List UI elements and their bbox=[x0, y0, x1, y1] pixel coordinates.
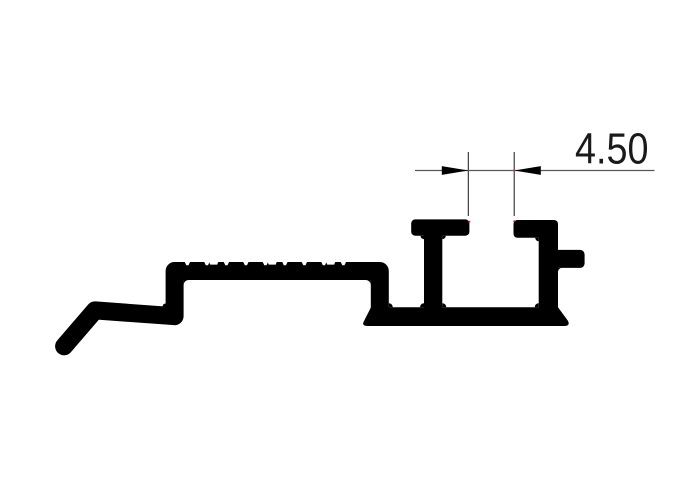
fillet tab bottom-left bbox=[558, 268, 562, 272]
profile base bar (flared ends) bbox=[363, 307, 569, 326]
right channel stem bbox=[539, 230, 558, 312]
right channel top bar bbox=[514, 220, 559, 238]
right side tab bbox=[552, 250, 585, 268]
svg-text:4.50: 4.50 bbox=[575, 126, 649, 174]
profile left section: hook, sloped web, left wall, serrated plateau, right wall (single stroke) bbox=[64, 271, 380, 346]
dimension extension line right bbox=[513, 152, 515, 216]
fillets at stem junctions bbox=[163, 236, 539, 309]
dimension arrow right bbox=[514, 166, 541, 175]
T upright top bar bbox=[411, 219, 469, 235]
T upright stem bbox=[424, 230, 442, 312]
defpoint marker right bbox=[513, 220, 515, 222]
dimension arrow left bbox=[442, 166, 469, 175]
dimension extension line left bbox=[467, 152, 469, 216]
dimension line bbox=[415, 170, 655, 172]
defpoint marker at arrow tip bbox=[513, 170, 515, 172]
defpoint marker left bbox=[468, 221, 470, 223]
serration notches (white cuts on plateau top) bbox=[184, 261, 346, 265]
